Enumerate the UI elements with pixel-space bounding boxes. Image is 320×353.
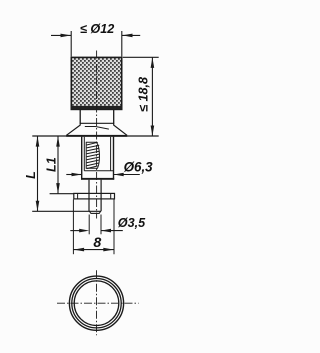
dimension Ø6,3 left tail [66, 174, 81, 176]
pin chamfer left [89, 211, 91, 214]
dimension Ø6,3 arrow left [72, 173, 82, 177]
body bore line right [110, 137, 112, 171]
bottom view middle circle [72, 279, 121, 328]
neck bottom line [80, 122, 115, 124]
cross-pin left cap line [77, 193, 79, 199]
dimension 18,8 arrow bottom [151, 126, 155, 137]
cone left side [66, 123, 80, 135]
dimension Ø12 line right tail [122, 34, 140, 36]
body bottom line [81, 178, 114, 180]
dimension 18,8 extension line top [123, 56, 159, 58]
bottom view inner circle [74, 281, 119, 326]
dimension Ø12 line left tail [51, 34, 71, 36]
pin left edge [88, 180, 90, 211]
dimension L1 line [57, 136, 59, 193]
dimension Ø3,5 arrow left [79, 229, 89, 233]
pin bottom line [91, 212, 100, 214]
knurled knob [71, 57, 121, 109]
spring outline [86, 142, 99, 168]
centerline front view [96, 51, 98, 219]
dimension L1 arrow bottom [56, 183, 60, 194]
dimension 8 extension line left [72, 200, 74, 255]
dimension Ø3,5 arrow right [101, 229, 111, 233]
svg-text:≤ Ø12: ≤ Ø12 [80, 22, 114, 36]
dimension 18,8 arrow top [151, 57, 155, 68]
svg-text:L: L [24, 171, 38, 179]
dimension 18,8 line [151, 58, 153, 136]
dimension Ø3,5 extension line right [100, 215, 102, 235]
pin chamfer right [99, 211, 101, 214]
cone bottom rim [66, 135, 127, 137]
pin right edge [100, 180, 102, 211]
svg-text:≤ 18,8: ≤ 18,8 [137, 77, 151, 112]
dimension Ø12 arrow right [122, 34, 133, 38]
neck left edge [79, 110, 81, 124]
cone right side [114, 123, 127, 135]
dimension 8 arrow right [103, 248, 114, 252]
dimension L line [37, 136, 39, 211]
svg-text:Ø3,5: Ø3,5 [118, 216, 146, 230]
neck right edge [113, 110, 115, 124]
dimension Ø3,5 left tail [70, 230, 81, 232]
dimension L arrow bottom [36, 201, 40, 212]
dimension Ø12 arrow left [61, 34, 72, 38]
dimension L1 bottom extension line [50, 193, 74, 195]
body right edge [113, 137, 115, 180]
cross-pin right cap line [110, 193, 112, 199]
bottom view vertical centerline [96, 270, 98, 335]
dimension 8 line [73, 249, 114, 251]
dimension Ø12 extension line left [70, 31, 72, 57]
cone inner line [85, 126, 96, 128]
dimension 18,8 extension+L extension line at flange bottom [32, 135, 158, 137]
bottom view outer circle [69, 276, 123, 330]
dimension Ø6,3 right tail [114, 174, 140, 176]
body shoulder line [84, 170, 113, 172]
dimension L bottom extension line [32, 210, 101, 212]
cross-pin bar [74, 193, 115, 199]
dimension L1 arrow top [56, 136, 60, 147]
dimension Ø3,5 extension line left [88, 215, 90, 235]
dimension 8 arrow left [74, 248, 85, 252]
body left edge [81, 137, 83, 180]
bottom view horizontal centerline [57, 302, 139, 304]
dimension 8 extension line right [113, 200, 115, 255]
spring coils [87, 142, 100, 168]
dimension Ø6,3 arrow right [114, 173, 124, 177]
dimension Ø12 extension line right [121, 31, 123, 57]
svg-text:8: 8 [93, 235, 101, 251]
dimension Ø3,5 right tail [101, 230, 123, 232]
dimension L arrow top [36, 136, 40, 147]
svg-text:L1: L1 [44, 157, 58, 172]
svg-text:Ø6,3: Ø6,3 [124, 160, 154, 175]
cone inner slash (spring top coil) [96, 127, 109, 130]
knob bottom band [71, 106, 121, 110]
body bore line left [83, 137, 85, 171]
